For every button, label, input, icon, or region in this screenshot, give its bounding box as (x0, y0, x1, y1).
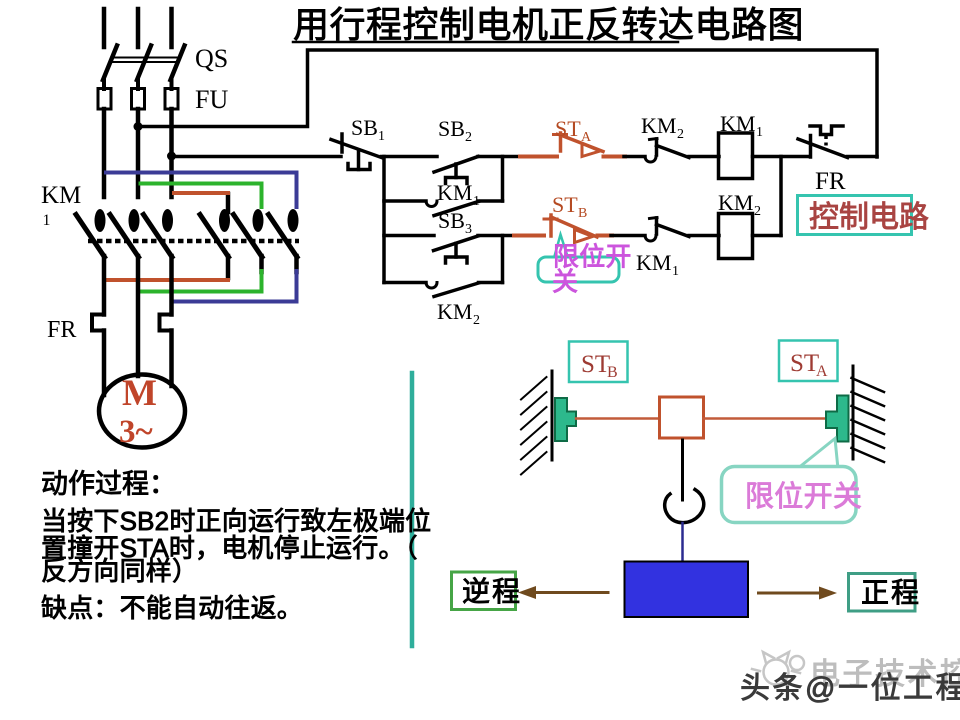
wire aux KM2 right vertical (501, 236, 505, 283)
wire orange bottom return (104, 256, 228, 280)
callout bubble 限位开关 (mechanical) (722, 467, 863, 523)
contactor KM1 main contact c (L3) (144, 209, 174, 257)
contactor KM2 main contact c (269, 209, 299, 257)
wire SB2 to STA (478, 155, 518, 159)
svg-text:SB: SB (438, 208, 465, 233)
wire SB3 to STB (478, 234, 515, 238)
svg-text:限位开关: 限位开关 (745, 480, 862, 513)
svg-text:3~: 3~ (119, 414, 153, 450)
label STA (555, 116, 592, 145)
wire phase L2 top (136, 9, 141, 47)
arrow right (forward travel) (759, 587, 838, 600)
svg-text:FR: FR (47, 317, 76, 343)
label SB3 (438, 208, 472, 237)
svg-text:QS: QS (195, 44, 228, 73)
drive block (blue) (625, 562, 749, 618)
wire orange crossover top (L3 to KM2 contact a) (174, 191, 228, 195)
callout bubble tail (797, 439, 838, 470)
node junction on L3 (167, 152, 176, 161)
node junction on L2 (134, 122, 143, 131)
title 用行程控制电机正反转达电路图 (293, 4, 804, 45)
thermal relay FR heater L3 (160, 315, 172, 331)
label STB (552, 192, 587, 221)
arrow left (reverse travel) (518, 586, 608, 599)
label box STA (mechanical) (779, 341, 838, 382)
svg-text:当按下SB2时正向运行致左极端位: 当按下SB2时正向运行致左极端位 (41, 506, 431, 536)
svg-text:FU: FU (195, 85, 228, 114)
rod right (704, 417, 827, 420)
svg-text:ST: ST (790, 350, 819, 377)
left wall hatching (521, 377, 547, 475)
label KM2 (interlock row1) (641, 113, 684, 142)
contactor KM1 main contact a (L1) (76, 209, 106, 257)
svg-text:用行程控制电机正反转达电路图: 用行程控制电机正反转达电路图 (293, 4, 804, 45)
wire L2 lower to motor (136, 256, 141, 376)
label KM2 (coil) (718, 190, 761, 219)
wire phase L3 below fuse (169, 109, 174, 197)
wire KM2 coil to junction (753, 234, 782, 238)
svg-text:KM: KM (720, 111, 755, 136)
label KM1 (interlock row2) (636, 250, 679, 279)
svg-text:B: B (578, 206, 587, 221)
callout arrow to STB 限位开关 (554, 235, 568, 259)
wire phase L2 below fuse (136, 109, 141, 197)
wire L3 to motor (169, 331, 174, 387)
svg-text:1: 1 (672, 264, 679, 279)
motor M circle (99, 375, 185, 448)
svg-text:逆程: 逆程 (462, 576, 522, 607)
svg-text:SB: SB (351, 115, 378, 140)
pushbutton SB1 (NC stop) (331, 134, 382, 170)
svg-text:1: 1 (473, 194, 480, 209)
divider teal line (410, 373, 415, 646)
svg-text:正程: 正程 (861, 577, 921, 608)
label KM2 (aux) (437, 299, 480, 328)
wire blue bottom return (173, 256, 297, 302)
svg-text:ST: ST (555, 116, 581, 141)
coil KM2 (719, 214, 753, 259)
label SB1 (351, 115, 385, 144)
svg-text:1: 1 (43, 212, 51, 229)
svg-text:2: 2 (465, 130, 472, 145)
wire SB1 to SB2 (382, 155, 438, 159)
wire to KM1 coil (689, 155, 719, 159)
label KM1 (coil) (720, 111, 763, 140)
svg-text:M: M (122, 373, 157, 414)
svg-text:关: 关 (552, 267, 578, 297)
rod left (576, 417, 660, 420)
svg-text:KM: KM (641, 113, 676, 138)
limit switch STB (NC) (514, 215, 612, 243)
svg-text:ST: ST (552, 192, 578, 217)
pushbutton SB3 (NO reverse start) (434, 236, 479, 263)
contactor KM1 main contact b (L2) (110, 209, 140, 257)
text block 动作过程 (41, 469, 431, 623)
svg-text:缺点：不能自动往返。: 缺点：不能自动往返。 (41, 593, 303, 623)
right wall line (852, 366, 855, 459)
label KM1 (aux) (437, 180, 480, 209)
linkage dotted line (88, 239, 299, 244)
svg-text:KM: KM (437, 180, 472, 205)
svg-text:B: B (607, 364, 618, 381)
svg-text:3: 3 (465, 222, 472, 237)
wire to drive block (681, 523, 684, 562)
svg-text:A: A (581, 130, 592, 145)
contactor KM2 main contact a (200, 194, 230, 257)
wire blue crossover top (L1 to KM2 contact c) (106, 173, 297, 208)
svg-text:动作过程：: 动作过程： (41, 469, 176, 499)
svg-text:2: 2 (754, 204, 761, 219)
wire right junction vertical (779, 157, 783, 236)
svg-text:KM: KM (437, 299, 472, 324)
wire bus to SB3 (384, 234, 434, 238)
fuse FU (three) (98, 89, 178, 110)
wire to KM2 coil (689, 234, 719, 238)
svg-text:控制电路: 控制电路 (809, 201, 929, 234)
box label 控制电路 (798, 196, 930, 235)
lead screw hook (665, 490, 704, 523)
svg-text:2: 2 (677, 127, 684, 142)
wire aux KM1 right vertical (501, 157, 505, 202)
svg-text:FR: FR (815, 168, 846, 195)
wire phase L1 top (102, 9, 107, 47)
wire KM1 coil to junction (753, 155, 810, 159)
svg-text:KM: KM (41, 182, 81, 209)
svg-text:2: 2 (473, 313, 480, 328)
wire STB to KM1 interlock (611, 234, 645, 238)
limit switch bracket STB (green) (555, 398, 576, 441)
label box STB (mechanical) (569, 342, 628, 383)
interlock contact KM1 (NC) row2 (645, 218, 689, 242)
wire L1 lower (102, 256, 107, 315)
callout box 限位开关 (control) (538, 242, 632, 297)
disconnect switch QS (103, 46, 185, 90)
wire from L3 junction to SB1 (172, 155, 342, 159)
wire STA to KM2 interlock (624, 155, 645, 159)
wire L3 lower (169, 256, 174, 315)
workpiece box (660, 397, 704, 438)
pushbutton SB2 (NO forward start) (434, 157, 478, 184)
svg-text:ST: ST (581, 351, 610, 378)
wire green bottom return (139, 256, 262, 292)
wire FR to right rail (848, 155, 878, 159)
thermal relay FR heater L1 (92, 315, 104, 331)
wire from L2 junction to control circuit top (138, 50, 877, 157)
auxiliary contact KM1 (NO self-hold) (384, 201, 503, 216)
contactor KM2 main contact b (234, 209, 264, 257)
interlock contact KM2 (NC) row1 (645, 139, 689, 163)
label box 逆程 (452, 572, 523, 610)
svg-text:KM: KM (636, 250, 671, 275)
svg-text:SB: SB (438, 116, 465, 141)
limit switch STA (NC) (520, 133, 625, 157)
coil KM1 (719, 133, 753, 179)
left wall line (551, 371, 554, 460)
label box 正程 (849, 574, 922, 612)
limit switch bracket STA (green) (826, 396, 849, 442)
svg-text:1: 1 (378, 129, 385, 144)
svg-text:头条@一位工程师: 头条@一位工程师 (740, 672, 960, 705)
svg-text:KM: KM (718, 190, 753, 215)
wire L1 to motor (102, 331, 107, 396)
lead screw wire (681, 440, 684, 500)
svg-text:反方向同样）: 反方向同样） (41, 556, 198, 586)
svg-text:1: 1 (756, 125, 763, 140)
wire green crossover top (L2 to KM2 contact b) (141, 184, 262, 208)
svg-text:A: A (816, 363, 828, 380)
wire phase L3 top (169, 9, 174, 47)
watermark cat logo (752, 652, 804, 685)
right wall hatching (852, 378, 885, 462)
thermal relay FR contact (NC) (798, 126, 848, 158)
wire left bus vertical (382, 157, 386, 283)
label SB2 (438, 116, 472, 145)
auxiliary contact KM2 (NO self-hold) (384, 283, 503, 297)
wire phase L1 below fuse (102, 109, 107, 197)
